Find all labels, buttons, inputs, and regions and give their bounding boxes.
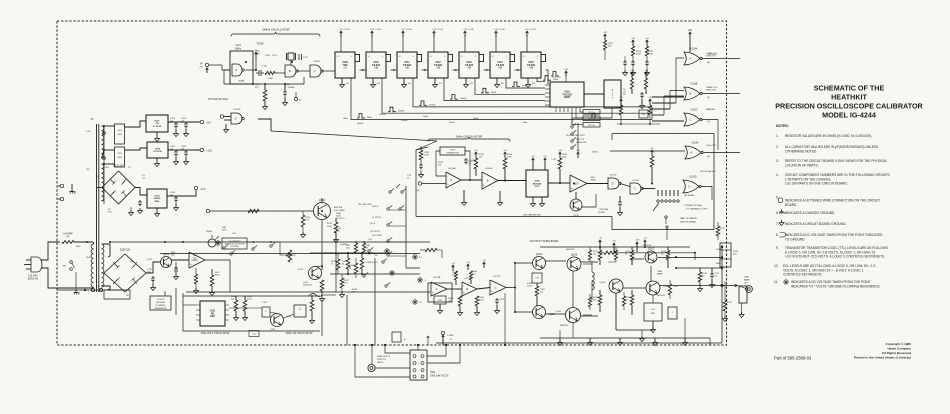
- U110 ground: [372, 78, 374, 82]
- gate C output wire: [702, 119, 718, 121]
- U116 reset network boxes: [583, 110, 600, 115]
- +5V stub above gate A: [689, 32, 691, 38]
- long select line to gates: [271, 131, 437, 150]
- +5V output terminal: [200, 120, 203, 123]
- resistor R171: [598, 250, 602, 260]
- contacts below wafer: [665, 216, 668, 234]
- wires one-volt osc: [229, 307, 262, 309]
- +5V resistor above U117: [604, 34, 606, 40]
- wire RC to gate B: [275, 72, 285, 74]
- U110 clock notch: [386, 55, 391, 62]
- select line into gate U119A: [610, 150, 685, 152]
- rate select contacts column: [571, 123, 587, 152]
- transistor Q109: [567, 257, 581, 271]
- capacitor C104: [185, 122, 187, 124]
- wire U109 to next stage: [360, 69, 367, 71]
- junction dots on bottom border: [354, 344, 356, 346]
- small box on bottom border: [392, 332, 401, 342]
- digital section enclosure top edge: [612, 133, 714, 135]
- gate U119D: [683, 180, 699, 193]
- divider output bus lines fan: [351, 78, 652, 120]
- resistor R151: [234, 300, 238, 311]
- wire U120C out: [642, 188, 655, 190]
- capacitor C107: [139, 200, 141, 202]
- gate A output to terminal: [702, 58, 740, 60]
- bottom rail vertical drops: [559, 330, 561, 338]
- rail over divider: [310, 252, 390, 254]
- mid cluster resistor R146b: [354, 263, 358, 274]
- emitter resistors to bottom rail: [572, 323, 574, 339]
- transistor Q107: [645, 251, 657, 263]
- U113 +5V stub: [464, 31, 466, 37]
- wire A to B: [447, 288, 462, 290]
- wires down to bottom border: [709, 338, 711, 345]
- wire plug low side: [41, 268, 93, 288]
- wafer contacts: [223, 247, 225, 249]
- wire U111 to next stage: [422, 69, 429, 71]
- wire U114 to next stage: [515, 69, 522, 71]
- U109 clock notch: [355, 55, 360, 62]
- resistor R161: [455, 271, 458, 280]
- divider IC U111 box: [397, 52, 417, 78]
- divider IC U112 box: [428, 52, 448, 78]
- select row top rail: [110, 241, 430, 243]
- U111 ground: [403, 78, 405, 82]
- op-amp U105B: [482, 172, 498, 189]
- -12V output terminal: [194, 186, 197, 189]
- fuse holder circles: [91, 288, 94, 291]
- U104 feedback resistor: [194, 274, 197, 284]
- small box T2: [294, 305, 306, 317]
- filter capacitor C102 can: [115, 147, 125, 167]
- junction dot: [86, 241, 88, 243]
- wire gate C output to divider chain: [322, 70, 335, 72]
- line-side terminal A: [60, 184, 63, 187]
- wire U113 to next stage: [484, 69, 491, 71]
- crystal element above gate B: [287, 53, 296, 65]
- wire fuse to transformer primary: [74, 241, 93, 243]
- resistor R146: [360, 258, 364, 269]
- gate U120C: [630, 183, 641, 194]
- power switch SW2 contacts: [62, 261, 74, 271]
- divider IC U113 box: [459, 52, 479, 78]
- output rail y288: [660, 285, 722, 287]
- U115 ground: [527, 78, 529, 82]
- IC U106 box: [526, 170, 548, 197]
- svg-text:BASE: BASE: [744, 279, 750, 282]
- more grounds left psu: [130, 207, 132, 210]
- gate U118A: [684, 52, 700, 65]
- U106 +5V stubs: [532, 158, 534, 164]
- U111 clock notch: [417, 55, 422, 62]
- resistor R164: [475, 296, 479, 306]
- mid cluster resistor R147: [340, 278, 344, 288]
- wire plug to fuse: [41, 242, 60, 260]
- output amp enclosure bottom: [436, 342, 722, 344]
- capacitor C103: [175, 122, 177, 124]
- wire from reference to U121: [183, 304, 196, 306]
- left rail down from bridge: [97, 187, 102, 189]
- PSU secondary rail: [103, 126, 105, 204]
- terminal stub D: [442, 335, 444, 345]
- mid cluster rail top: [322, 252, 375, 254]
- U103 ground: [156, 208, 158, 211]
- feedback wires around U105A: [436, 151, 446, 176]
- resistor R116: [263, 90, 267, 101]
- output node rails to right: [658, 257, 722, 259]
- output junction dots: [721, 246, 723, 248]
- wire secondary to lower bridge: [104, 243, 108, 245]
- resistor R139 on enclosure: [419, 150, 423, 160]
- wire reference box up: [164, 291, 166, 296]
- wire U105B out to U106: [498, 180, 526, 182]
- gate D ground: [225, 124, 227, 127]
- transistor Q111 regulator: [161, 257, 172, 268]
- tiny box 750: [639, 110, 648, 118]
- gate U108C: [310, 65, 321, 77]
- output area resistor x725: [723, 300, 727, 311]
- +5V resistor R122: [645, 72, 647, 78]
- +5V resistor R119 upper: [632, 40, 634, 46]
- capacitor C139: [420, 163, 422, 165]
- regulator U101 +5V box: [146, 115, 168, 132]
- gate U118C: [684, 113, 700, 126]
- switch SW1 box: [410, 350, 427, 380]
- counter U117 box: [604, 80, 621, 108]
- switch S2A contacts upper: [389, 184, 406, 193]
- Q103 wires: [575, 192, 577, 199]
- select line riser: [258, 119, 271, 131]
- mid cluster contact 1: [382, 261, 384, 263]
- transistor Q102: [533, 306, 546, 319]
- capacitor C119: [632, 60, 634, 62]
- digital section enclosure right edge: [713, 134, 715, 230]
- U116 left pin stubs: [545, 85, 550, 105]
- 2MHz oscillator section label and brace: [231, 28, 320, 37]
- transistor Q106: [646, 281, 660, 295]
- U114 ground: [496, 78, 498, 82]
- resistor R142: [334, 222, 338, 233]
- counter U116 box: [550, 82, 584, 107]
- title block: SCHEMATIC OF THE HEATHKIT PRECISION OSCILLOSCOPE CALIBRATOR MODEL IG-4244: [551, 52, 924, 147]
- gate U108A: [232, 64, 242, 76]
- extra rotary contact row: [387, 254, 389, 256]
- U114 clock notch: [510, 55, 515, 62]
- regulator U103 LM320 box: [147, 189, 167, 208]
- svg-text:+5V: +5V: [645, 38, 649, 40]
- test point TP1: [295, 98, 298, 101]
- resistor R146 in series: [265, 71, 275, 74]
- wire U116 to U117: [584, 93, 604, 95]
- comparator U107 triangle: [570, 175, 587, 192]
- 1kHz oscillator label and brace: [428, 135, 510, 142]
- wire B to C: [477, 288, 490, 290]
- +5V stubs over op-amps: [452, 265, 454, 271]
- wire common down to divider: [406, 262, 420, 268]
- input resistor network: [425, 248, 437, 251]
- star symbol x387: [385, 249, 389, 253]
- oscillator feedback wire lower: [224, 70, 304, 84]
- pulse glyph above U116: [551, 72, 559, 77]
- regulator U102 box: [147, 142, 168, 158]
- resistor R153: [310, 300, 314, 311]
- capacitor C162: [496, 298, 498, 300]
- top rail junction dots: [109, 241, 111, 243]
- output right vertical bus: [721, 245, 723, 343]
- gate D input terminal: [220, 115, 223, 118]
- CALIBRATED label box: [222, 238, 247, 249]
- grounds lower right cluster: [652, 321, 654, 327]
- enclosure corner drop: [611, 134, 613, 141]
- +5V stub above comparator: [577, 152, 579, 158]
- ground stub under connector: [741, 303, 743, 312]
- bridge rectifier D105-D108: [104, 250, 146, 293]
- mW osc section right edge: [321, 300, 323, 336]
- output coupling: [583, 263, 592, 265]
- U121 pin stubs: [196, 305, 229, 320]
- capacitor C116: [284, 90, 286, 92]
- select row mid rail: [160, 253, 420, 255]
- bridge to U103 wire: [135, 188, 147, 196]
- second small box lower right: [668, 307, 677, 319]
- wire U112 to next stage: [453, 69, 460, 71]
- transistor Q101: [533, 257, 546, 270]
- one-volt oscillator section outline: [183, 293, 320, 331]
- capacitor C110: [152, 276, 154, 278]
- U110 +5V stub: [371, 31, 373, 37]
- resistor pair near select row: [354, 243, 357, 253]
- +15 stubs on top rail: [599, 240, 601, 247]
- VOLTS GROUND FLOATING REFERENCE label box: [150, 296, 171, 310]
- power switch lower wire and chassis ground: [75, 272, 77, 290]
- switch common vertical: [405, 186, 407, 262]
- wire last divider to U116: [546, 70, 549, 84]
- divider IC U115 box: [521, 52, 541, 78]
- gate U109D: [231, 113, 242, 124]
- inductor L101: [592, 272, 594, 290]
- star voltage symbol 3: [413, 300, 417, 304]
- switch S2A contacts row 2: [372, 205, 404, 210]
- select contacts row A: [252, 248, 254, 250]
- output jack J2 outside border: [746, 286, 753, 293]
- chassis ground symbol near border: [70, 184, 76, 194]
- wire output down: [724, 281, 726, 296]
- gate U108B: [285, 65, 296, 77]
- horizontal resistor on rail: [604, 251, 616, 254]
- U112 clock notch: [448, 55, 453, 62]
- ground stub above border: [427, 336, 429, 345]
- resistor R138: [650, 156, 654, 167]
- transformer secondary winding 2: [102, 164, 104, 201]
- potentiometer R143: [288, 250, 292, 262]
- U114 +5V stub: [495, 31, 497, 37]
- resistor R134 pull-up: [504, 152, 506, 158]
- capacitor C120: [646, 60, 648, 62]
- star voltage symbol 1: [413, 255, 417, 259]
- select contacts row B: [368, 250, 370, 252]
- divider IC U114 box: [490, 52, 510, 78]
- U113 ground: [465, 78, 467, 82]
- transformer T1 core: [96, 124, 98, 292]
- resistor R123 lower cluster: [620, 99, 622, 105]
- wire rows to common: [389, 209, 406, 211]
- line-side terminal B: [60, 197, 63, 200]
- gate B output to terminal: [702, 93, 740, 95]
- capacitor C108: [175, 196, 177, 198]
- transistor Q110: [314, 203, 331, 220]
- transformer T1 primary winding: [91, 244, 93, 287]
- resistor R172: [630, 250, 634, 260]
- op-amp U104 error amplifier: [189, 252, 205, 268]
- PSU rail terminal C: [103, 132, 106, 135]
- capacitor C147 right of crystal: [299, 54, 309, 60]
- switch contact row 3: [370, 221, 392, 226]
- capacitor C151: [262, 307, 270, 317]
- Q110 emitter down wire: [321, 220, 323, 267]
- gate U119A: [685, 146, 701, 159]
- wire U120D to U120C: [620, 184, 630, 187]
- transformer secondary winding 3: [102, 244, 104, 287]
- U112 +5V stub: [433, 31, 435, 37]
- svg-text:TIME: TIME: [744, 277, 749, 279]
- +5V resistor R120 upper: [646, 40, 648, 46]
- resistor R145: [346, 258, 350, 269]
- bus waveform glyphs at line corners: [357, 114, 365, 119]
- connector block outside border: [739, 286, 747, 303]
- gate U119A output terminal: [703, 152, 740, 154]
- dots on select rails: [253, 241, 255, 243]
- +15V stub 2: [636, 242, 638, 252]
- AC plug P1: [24, 257, 42, 281]
- comparator output wire to gates: [587, 183, 608, 185]
- transistor Q112: [309, 267, 322, 280]
- thermistor network box: [440, 147, 465, 155]
- +15V stub left of Q109: [613, 243, 615, 252]
- long vertical wire x375: [374, 258, 376, 345]
- U102 output wire to terminal: [168, 149, 200, 151]
- U112 ground: [434, 78, 436, 82]
- op-amp output wire: [205, 260, 230, 292]
- resistor R136: [559, 152, 561, 158]
- svg-text:+15V: +15V: [635, 240, 640, 242]
- driver rail wires: [546, 260, 567, 262]
- wire to Q110 base: [210, 210, 314, 212]
- output arrow through border: [722, 285, 737, 287]
- svg-text:+5V: +5V: [631, 38, 635, 40]
- resistor R141 horizontal on base line: [248, 209, 259, 212]
- wire U110 to next stage: [391, 69, 398, 71]
- bottom border connect wires: [504, 293, 506, 345]
- fuse F1 1/4 AMP: [62, 233, 74, 244]
- zener diode D109: [175, 262, 177, 268]
- U106 grounds: [532, 197, 534, 201]
- rotary resistor extra: [301, 215, 305, 227]
- bias network between Q101 Q102: [532, 273, 542, 283]
- heatsink box Q106: [644, 303, 662, 321]
- wires upper output stage: [581, 261, 598, 263]
- gate U119D output wire: [701, 187, 712, 201]
- op-amp U122A with box: [428, 283, 452, 302]
- wires from wafer down: [666, 234, 668, 240]
- wire gate B to gate C: [297, 70, 310, 72]
- bottom supply wire y290: [57, 289, 130, 291]
- wires bottom connector: [355, 345, 410, 377]
- op-amp U121 box: [200, 301, 225, 326]
- pulse glyph right of chain: [590, 114, 598, 119]
- vertical x336: [335, 232, 337, 292]
- U109 +5V stub: [340, 31, 342, 37]
- wire terminal to gate A: [209, 64, 222, 66]
- input terminal 1kHz: [418, 182, 421, 185]
- resistor R163: [458, 296, 462, 306]
- feedback junction dots: [252, 83, 254, 85]
- note 5 with wire-connection circle symbol: [778, 198, 783, 203]
- mid rail: [330, 273, 420, 275]
- resistor R176 at output: [698, 272, 702, 282]
- top rail of one-volt section: [183, 295, 320, 297]
- U102 ground: [156, 158, 158, 161]
- mid cluster contact 2: [385, 285, 387, 287]
- rail y253 wire: [625, 252, 695, 254]
- resistor R162: [470, 271, 473, 280]
- U116 bottom pins: [555, 107, 557, 112]
- U109 ground: [341, 78, 343, 82]
- gate U108A enclosure box: [230, 51, 253, 84]
- wire C out to drivers: [506, 263, 533, 288]
- one volt bottom rail: [186, 291, 430, 293]
- BNC jack J1: [368, 364, 375, 371]
- border resistor box R178: [720, 243, 731, 267]
- junction dots oscillator: [469, 179, 471, 181]
- star symbol x392: [390, 271, 394, 275]
- long vertical wire x347: [346, 295, 348, 345]
- filter capacitor C101 can: [115, 124, 125, 144]
- capacitor box between labels: [249, 331, 259, 337]
- gate U120D: [608, 178, 619, 189]
- SW1 contacts: [413, 355, 424, 379]
- capacitor C121: [641, 92, 643, 94]
- bridge rectifier D101-D104: [102, 166, 135, 205]
- U115 clock notch: [541, 55, 546, 62]
- wire loop under fuse: [104, 290, 130, 299]
- U116 pins to reset boxes: [580, 111, 583, 113]
- op-amp U122B: [462, 282, 477, 296]
- capacitor C135: [619, 200, 621, 202]
- transformer secondary winding 1: [102, 126, 104, 158]
- output amp top rail: [540, 246, 690, 248]
- +12V output terminal: [200, 148, 203, 151]
- wire U105A out to U105B: [461, 179, 482, 181]
- capacitor C131: [465, 158, 467, 160]
- gate U118B: [684, 87, 700, 100]
- circuit group with scan blur: [24, 21, 740, 380]
- volts reference resistor divider: [210, 275, 214, 286]
- wire calibrate box: [247, 241, 280, 243]
- wires lower output stage: [580, 315, 598, 317]
- U104 star voltage: [216, 241, 220, 245]
- divider resistors under Q112: [320, 280, 324, 291]
- grounds under 1kHz osc: [463, 190, 465, 200]
- rotary wafer SW1A circle: [208, 239, 216, 247]
- resistor R173: [666, 250, 670, 260]
- resistor near output terminals: [716, 226, 720, 236]
- S2 wafer contacts row: [653, 200, 679, 211]
- grounds under opamp A: [439, 304, 441, 308]
- input terminal at left of oscillator: [199, 63, 209, 73]
- star voltage symbol 2: [418, 278, 422, 282]
- resistor R174: [598, 295, 602, 305]
- capacitor C106: [185, 150, 187, 152]
